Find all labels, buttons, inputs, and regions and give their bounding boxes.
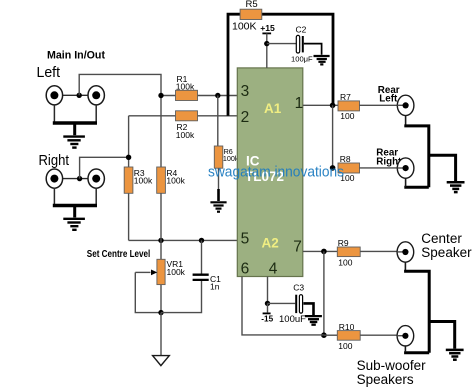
- pin 3: [241, 83, 250, 100]
- wire left jack stems: [54, 105, 96, 122]
- RCA jack right input A: [46, 169, 62, 188]
- svg-text:Right: Right: [39, 153, 70, 169]
- svg-text:A1: A1: [264, 101, 282, 116]
- svg-text:-15: -15: [261, 315, 273, 324]
- node VR1 bottom: [158, 310, 163, 315]
- wire right-input link: [54, 178, 96, 180]
- pin 1: [295, 95, 304, 112]
- wire VR1 wiper: [135, 270, 161, 313]
- resistor R5: [232, 0, 262, 33]
- wire pin6 feedback loop: [242, 277, 324, 335]
- node R1 input: [158, 93, 163, 98]
- pin 4: [269, 261, 278, 278]
- resistor R4: [157, 167, 186, 193]
- label Rear Left: [378, 85, 400, 105]
- wire center ground branch: [429, 322, 455, 349]
- capacitor C3: [279, 283, 306, 325]
- pin 2: [241, 109, 250, 126]
- svg-text:C2: C2: [296, 25, 307, 35]
- svg-text:Set Centre Level: Set Centre Level: [87, 249, 151, 260]
- RCA jack rear right: [397, 158, 414, 178]
- svg-text:Speaker: Speaker: [421, 245, 472, 260]
- svg-text:100k: 100k: [166, 176, 185, 186]
- svg-text:3: 3: [241, 83, 250, 100]
- svg-text:100μF: 100μF: [291, 54, 313, 63]
- wire rear ground branch: [429, 155, 456, 181]
- resistor R10: [337, 322, 360, 351]
- wire pin1 row: [303, 104, 338, 106]
- svg-text:2: 2: [241, 109, 250, 126]
- resistor R7: [338, 92, 360, 121]
- supply +15 terminal: [260, 23, 275, 68]
- resistor R9: [337, 238, 360, 267]
- wire R6 column: [217, 96, 220, 191]
- wire rear jacks ground loop: [404, 115, 429, 187]
- node VR1 top: [158, 238, 163, 243]
- node right signal to R3: [126, 155, 131, 160]
- svg-text:1: 1: [295, 95, 304, 112]
- capacitor C2: [291, 25, 313, 64]
- wire R9 to center jack: [360, 250, 397, 252]
- resistor R2: [176, 111, 198, 140]
- ground triangle VR1: [153, 356, 170, 366]
- ground R6: [210, 189, 226, 212]
- wire pin7 row: [303, 250, 338, 252]
- wire R3 column: [128, 116, 130, 241]
- label Center Speaker: [421, 231, 472, 260]
- RCA jack left input B: [88, 86, 104, 105]
- wire left-input link: [54, 94, 96, 96]
- label Rear Right: [376, 148, 402, 168]
- pin 6: [241, 261, 250, 278]
- svg-text:R5: R5: [246, 0, 258, 10]
- svg-text:A2: A2: [262, 236, 279, 251]
- wire R7R8 link column: [332, 105, 334, 168]
- label Sub-woofer Speakers: [357, 358, 427, 387]
- ground C2: [314, 56, 330, 64]
- wire center sub jacks ground loop: [404, 262, 429, 353]
- node pin1 output: [330, 103, 336, 109]
- svg-text:+15: +15: [260, 23, 275, 33]
- wire C3 to ground: [303, 303, 313, 315]
- wire right jack ground bar: [53, 206, 97, 218]
- svg-text:Sub-woofer: Sub-woofer: [357, 358, 427, 373]
- resistor R3: [124, 167, 153, 193]
- resistor R1: [176, 74, 198, 101]
- capacitor C1: [193, 240, 222, 291]
- svg-text:Main In/Out: Main In/Out: [47, 50, 105, 62]
- svg-text:100k: 100k: [167, 267, 186, 277]
- node pin4 junction: [265, 301, 270, 306]
- svg-text:R9: R9: [338, 238, 349, 248]
- svg-text:100: 100: [338, 257, 352, 267]
- node right input junction: [77, 176, 82, 181]
- svg-text:100k: 100k: [176, 81, 195, 91]
- svg-text:100: 100: [338, 341, 352, 351]
- wire right input to node R: [80, 157, 129, 178]
- label Left: [37, 65, 61, 81]
- node pin7 output: [321, 249, 327, 255]
- pin 5: [241, 231, 250, 248]
- wire pin4 to C3: [268, 302, 296, 304]
- wire pin4 column: [267, 277, 269, 304]
- node R10 input: [321, 332, 327, 338]
- label IC TL072: [245, 154, 284, 185]
- ground C3: [305, 316, 322, 325]
- svg-text:R8: R8: [340, 154, 351, 164]
- RCA jack subwoofer: [397, 326, 414, 346]
- svg-text:1n: 1n: [210, 281, 220, 291]
- resistor R6: [214, 146, 239, 168]
- wire R10 to subwoofer jack: [360, 334, 397, 336]
- node supply junction: [264, 41, 269, 46]
- label Set Centre Level: [87, 249, 151, 260]
- wire R5 feedback loop thick: [228, 14, 333, 116]
- wire supply to C2: [267, 43, 296, 45]
- ground rear jacks: [447, 182, 465, 192]
- svg-text:swagatam innovations: swagatam innovations: [208, 165, 344, 181]
- svg-text:4: 4: [269, 261, 278, 278]
- svg-text:5: 5: [241, 231, 250, 248]
- node C1 top: [199, 238, 204, 243]
- ground center sub jacks: [446, 350, 464, 360]
- wire line A left column: [160, 96, 162, 168]
- pin 7: [293, 239, 302, 256]
- op-amp A1 label: [264, 101, 282, 116]
- svg-text:Left: Left: [37, 65, 61, 81]
- resistor R8: [338, 154, 360, 183]
- svg-text:100: 100: [340, 111, 354, 121]
- svg-text:100k: 100k: [134, 176, 153, 186]
- wire right jack stems: [54, 188, 96, 204]
- wire C2 to ground: [304, 44, 322, 55]
- wire pin5 row: [129, 239, 238, 241]
- svg-text:100k: 100k: [176, 130, 195, 140]
- node left input junction: [77, 93, 82, 98]
- svg-text:R7: R7: [340, 92, 351, 102]
- RCA jack center: [397, 242, 414, 262]
- RCA jack right input B: [88, 169, 104, 188]
- potentiometer VR1: [157, 240, 186, 312]
- svg-text:Center: Center: [421, 231, 462, 246]
- wire R2 row pin2: [129, 115, 238, 117]
- wire VR1 to ground triangle: [160, 313, 162, 355]
- RCA jack left input A: [46, 86, 62, 105]
- wire R4 bottom to pin5 row: [160, 193, 162, 240]
- svg-text:100uF: 100uF: [279, 314, 306, 325]
- svg-text:C3: C3: [293, 283, 304, 293]
- svg-text:7: 7: [293, 239, 302, 256]
- svg-text:6: 6: [241, 261, 250, 278]
- wire node to R10: [324, 334, 337, 336]
- wire R7 to rear left jack: [360, 104, 398, 106]
- label Main In/Out: [47, 50, 105, 62]
- svg-text:100k: 100k: [223, 154, 239, 163]
- wire R8 to rear right jack: [360, 167, 398, 169]
- svg-text:Speakers: Speakers: [357, 372, 414, 387]
- watermark swagatam innovations: [208, 165, 344, 181]
- svg-text:100K: 100K: [232, 21, 257, 33]
- op-amp IC U1 TL072 body: [237, 68, 302, 277]
- node pin3 R6 tap: [215, 93, 220, 98]
- ground left input: [63, 137, 85, 148]
- wire VR1 bottom wire to C1: [161, 281, 202, 313]
- supply -15 terminal: [261, 303, 273, 323]
- wire left jack ground bar: [53, 123, 97, 135]
- svg-text:Left: Left: [379, 94, 398, 105]
- label Right: [39, 153, 70, 169]
- wire pin7 to R10 column: [323, 251, 325, 335]
- wire R1 row pin3: [161, 95, 237, 97]
- node R8 input: [330, 165, 336, 171]
- ground right input: [63, 219, 85, 230]
- op-amp A2 label: [262, 236, 279, 251]
- svg-text:R10: R10: [339, 322, 355, 332]
- wire left input to node L: [79, 74, 161, 95]
- RCA jack rear left: [397, 95, 414, 115]
